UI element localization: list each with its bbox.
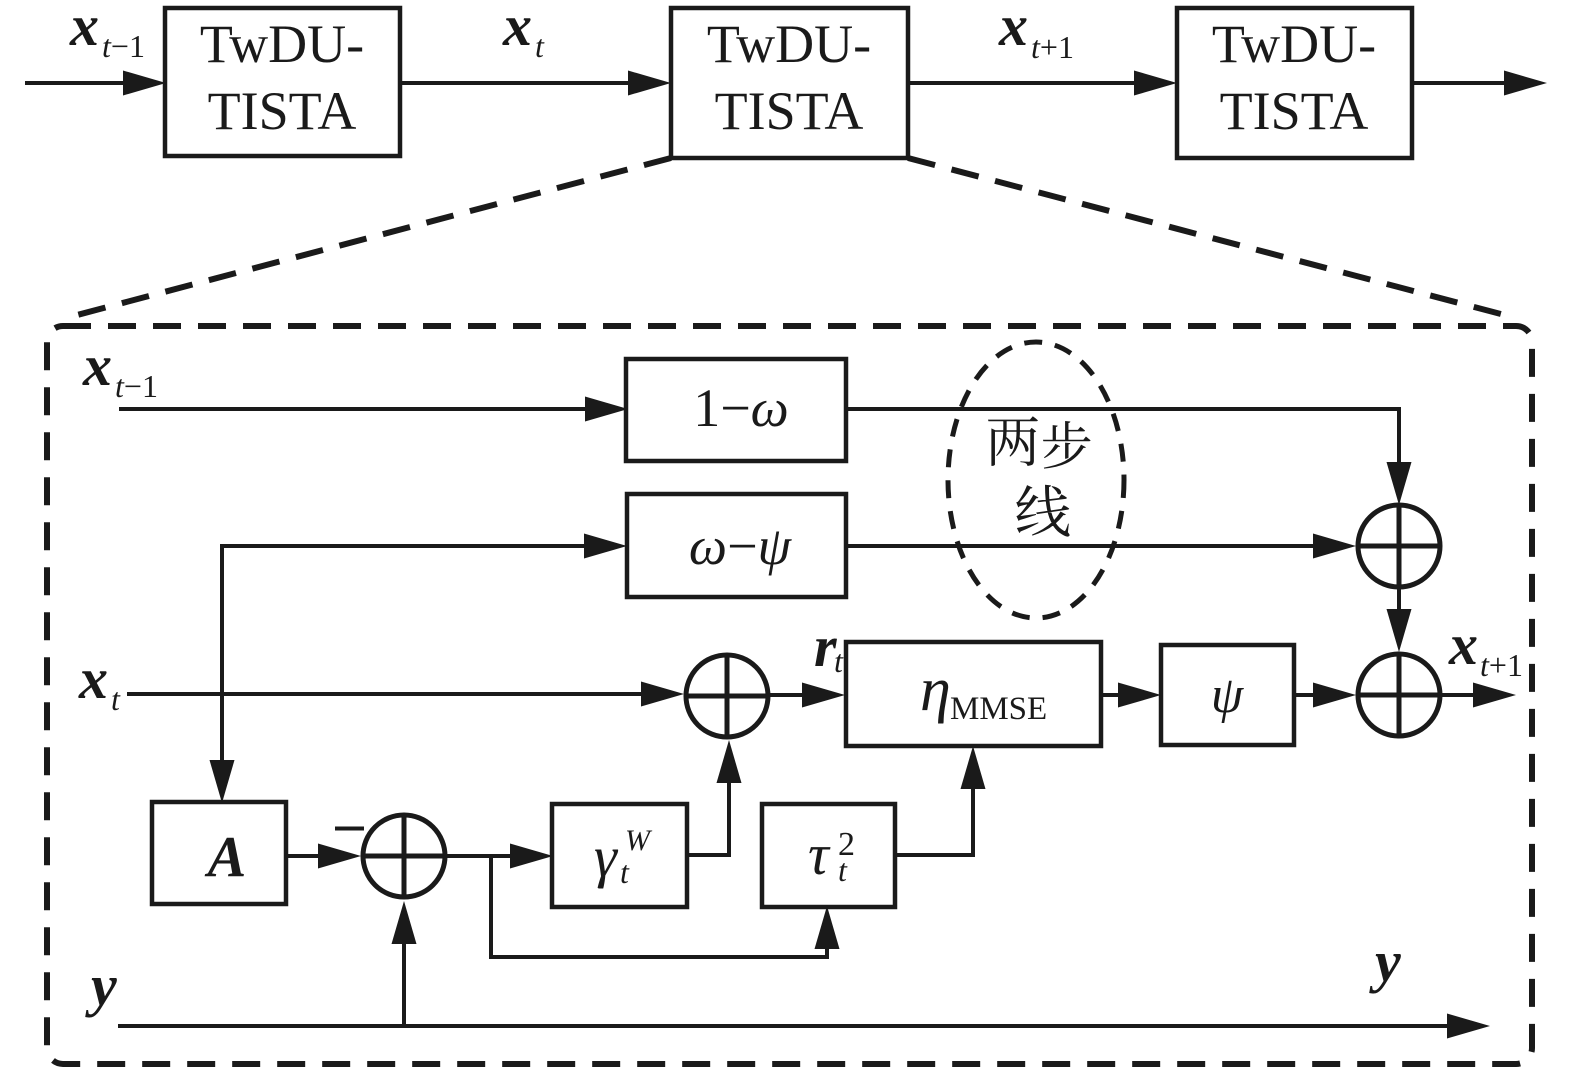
svg-text:t: t: [834, 643, 844, 679]
block U2 TwDU-TISTA: [671, 8, 908, 158]
svg-text:x: x: [82, 333, 112, 398]
dashed expansion line right: [908, 158, 1516, 318]
svg-text:MMSE: MMSE: [950, 691, 1047, 727]
wire U1 to U2: [400, 71, 671, 96]
svg-text:t: t: [620, 854, 630, 890]
svg-text:TwDU-: TwDU-: [200, 14, 364, 74]
wire psi to adder S2: [1294, 683, 1356, 708]
svg-text:t: t: [535, 28, 545, 64]
block U3 TwDU-TISTA: [1177, 8, 1412, 158]
block 1-omega: [626, 359, 846, 461]
label x_t-1 (inner): [82, 333, 158, 404]
wire y bus: [118, 1014, 1490, 1039]
adder S1 (momentum sum): [1358, 505, 1440, 587]
svg-text:TwDU-: TwDU-: [1212, 14, 1376, 74]
svg-text:x: x: [502, 0, 532, 58]
svg-text:A: A: [205, 824, 247, 889]
block tau_t^2: [762, 804, 895, 907]
dashed detail frame: [47, 326, 1532, 1064]
wire adder S1 down to adder S2: [1387, 587, 1412, 652]
svg-text:TISTA: TISTA: [1220, 81, 1369, 141]
label minus sign at S4: [335, 827, 364, 831]
wire gamma to adder S3: [687, 740, 742, 855]
label y (right): [1369, 929, 1401, 994]
block psi: [1161, 645, 1294, 745]
wire y branch up to adder S4: [392, 901, 417, 1026]
wire 1-omega to adder S1: [846, 409, 1412, 505]
wire omega-psi to adder S1: [846, 534, 1356, 559]
wire input arrow into U1: [25, 71, 166, 96]
label x_t+1 (top): [998, 0, 1074, 65]
wire S2 output arrow: [1440, 683, 1516, 708]
adder S2 (output sum): [1358, 654, 1440, 736]
wire S3 to eta-MMSE: [768, 683, 845, 708]
svg-text:x: x: [998, 0, 1028, 58]
svg-text:τ: τ: [808, 822, 831, 887]
wire A to adder S4: [286, 844, 361, 869]
svg-text:x: x: [1448, 612, 1478, 677]
label r_t: [814, 614, 844, 679]
block U1 TwDU-TISTA: [165, 8, 400, 156]
dashed expansion line left: [62, 158, 671, 319]
svg-text:x: x: [69, 0, 99, 58]
svg-text:γ: γ: [594, 824, 619, 889]
svg-text:η: η: [920, 656, 951, 724]
adder S4 (residual subtract): [363, 815, 445, 897]
svg-text:ψ: ψ: [1211, 667, 1245, 724]
wire eta-MMSE to psi: [1101, 683, 1161, 708]
block eta-MMSE: [846, 642, 1101, 746]
svg-text:TISTA: TISTA: [715, 81, 864, 141]
wire U2 to U3: [908, 71, 1177, 96]
svg-text:t−1: t−1: [115, 368, 158, 404]
wire S4 to gamma: [445, 844, 553, 869]
adder S3 (r_t sum): [686, 655, 768, 737]
block omega-psi: [627, 494, 846, 597]
svg-text:W: W: [625, 824, 653, 857]
label x_t (inner): [78, 646, 121, 717]
wire tau to eta-MMSE: [895, 746, 986, 855]
svg-text:t: t: [111, 681, 121, 717]
block A: [152, 802, 286, 904]
label x_t+1 (inner output): [1448, 612, 1523, 683]
label x_t-1 (top input): [69, 0, 145, 64]
svg-text:1−ω: 1−ω: [693, 378, 789, 438]
wire x_t branch down to A: [210, 694, 235, 803]
svg-text:TwDU-: TwDU-: [707, 14, 871, 74]
wire x_t-1 to block 1-omega: [119, 397, 628, 422]
wire x_t branch up to omega-psi: [222, 534, 627, 695]
svg-text:x: x: [78, 646, 108, 711]
label x_t (top): [502, 0, 545, 64]
wire U3 output arrow: [1412, 71, 1547, 96]
wire bypass S4 to tau: [491, 856, 840, 957]
wire x_t to adder S3: [127, 682, 684, 707]
svg-text:TISTA: TISTA: [208, 81, 357, 141]
svg-text:ω−ψ: ω−ψ: [689, 516, 793, 576]
svg-text:t: t: [838, 852, 848, 888]
svg-text:t+1: t+1: [1031, 29, 1074, 65]
dashed ellipse two-step note: [948, 342, 1124, 618]
svg-text:t−1: t−1: [102, 28, 145, 64]
label two-step-line (Chinese): [988, 416, 1091, 536]
block gamma_t^W: [552, 804, 687, 907]
svg-text:t+1: t+1: [1480, 647, 1523, 683]
label y (left): [85, 953, 117, 1018]
